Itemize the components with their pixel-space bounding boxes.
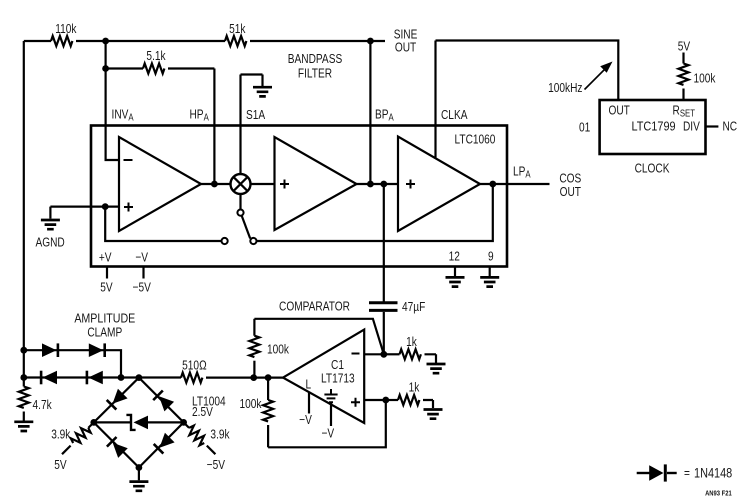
wire A3 output to COS OUT: [480, 183, 550, 185]
diode D7 bridge bottom-left: [107, 437, 128, 458]
legend diode 1N4148: [637, 472, 650, 474]
resistor 100k feedback: [253, 319, 255, 336]
ground AGND: [49, 207, 51, 219]
diode D6 bridge top-right: [153, 391, 174, 412]
svg-text:OUT: OUT: [609, 103, 630, 117]
node junction bridge bottom: [136, 464, 143, 471]
switch S1 pole: [239, 194, 241, 209]
svg-text:5V: 5V: [54, 458, 67, 472]
svg-text:−5V: −5V: [207, 458, 226, 472]
svg-text:3.9k: 3.9k: [51, 427, 70, 441]
node junction BPA top: [367, 38, 374, 45]
switch S1 left contact: [222, 238, 228, 244]
svg-text:47µF: 47µF: [402, 300, 425, 314]
svg-text:OUT: OUT: [395, 40, 416, 54]
svg-text:C1: C1: [331, 358, 344, 372]
svg-text:5.1k: 5.1k: [146, 49, 165, 63]
wire summing node to A2: [251, 183, 275, 185]
svg-text:=: =: [684, 466, 690, 480]
node junction 110k/51k: [102, 38, 109, 45]
wire 5.1k to HPA pin: [168, 69, 214, 185]
ground 4.7k: [14, 422, 33, 431]
svg-text:9: 9: [488, 249, 494, 263]
ground comparator gnd pin: [330, 389, 332, 394]
svg-text:100kHz: 100kHz: [548, 81, 582, 95]
svg-text:CLKA: CLKA: [441, 108, 468, 122]
resistor 1k lower: [386, 399, 398, 401]
node junction clamp right: [118, 374, 125, 381]
capacitor 47uF: [383, 184, 385, 302]
wire left rail: [23, 41, 25, 378]
svg-text:01: 01: [579, 120, 590, 134]
svg-text:CLAMP: CLAMP: [87, 325, 122, 339]
comparator C1 LT1713: [283, 330, 364, 424]
svg-text:COS: COS: [559, 171, 581, 185]
resistor 110k: [51, 36, 72, 46]
svg-text:1N4148: 1N4148: [694, 465, 732, 481]
svg-text:AGND: AGND: [35, 235, 64, 249]
ground pin 12: [446, 277, 465, 286]
wire feedback rail to LPA output: [257, 184, 493, 241]
svg-text:BANDPASS: BANDPASS: [288, 52, 343, 66]
wire S1A to ground: [241, 75, 263, 175]
op-amp A3: [398, 137, 480, 232]
op-amp A2: [275, 137, 357, 230]
resistor 4.7k: [23, 378, 25, 387]
svg-text:510Ω: 510Ω: [182, 358, 207, 372]
wire down to 5.1k: [104, 41, 106, 69]
wire clock feed: [436, 41, 619, 101]
svg-text:3.9k: 3.9k: [210, 427, 229, 441]
svg-text:5V: 5V: [100, 280, 113, 294]
summing node circle: [231, 174, 251, 194]
annotation 100kHz arrow: [585, 68, 607, 90]
node junction 100k divider tap: [265, 374, 272, 381]
svg-text:L: L: [305, 377, 311, 391]
svg-text:LTC1060: LTC1060: [455, 132, 496, 146]
diode D3: [41, 371, 57, 385]
svg-text:OUT: OUT: [560, 185, 581, 199]
node junction noninverting input: [382, 397, 389, 404]
resistor 5.1k: [106, 67, 143, 69]
svg-text:5V: 5V: [678, 39, 691, 53]
ground 1k upper: [427, 364, 446, 373]
resistor 3.9k left: [88, 422, 94, 428]
svg-text:100k: 100k: [694, 71, 716, 85]
resistor 3.9k right: [184, 422, 190, 428]
svg-text:−5V: −5V: [133, 280, 152, 294]
wire op-amp A1 output: [201, 183, 231, 185]
node junction clamp top left: [20, 347, 27, 354]
ground S1A: [253, 87, 272, 96]
wire CLKA: [434, 41, 436, 158]
svg-text:AN93 F21: AN93 F21: [705, 490, 732, 498]
svg-text:CLOCK: CLOCK: [635, 161, 670, 175]
wire INVA input: [106, 69, 119, 161]
LTC1060 box U1: [91, 126, 507, 267]
wire bottom rail to noninverting input: [268, 400, 386, 447]
resistor 510 ohm: [181, 373, 202, 383]
resistor 1k upper: [384, 353, 400, 355]
zener LT1004 2.5V: [94, 421, 184, 423]
svg-text:NC: NC: [723, 119, 738, 133]
switch S1 right contact: [250, 238, 256, 244]
node junction 5.1k tap: [102, 65, 109, 72]
svg-text:−V: −V: [299, 413, 312, 427]
switch S1 lever: [242, 216, 250, 239]
svg-text:1k: 1k: [406, 335, 417, 349]
wire comparator noninverting input: [364, 399, 386, 401]
wire to switch pole rail: [105, 207, 221, 241]
diode D4: [87, 371, 103, 385]
diode D8 bridge bottom-right: [154, 433, 175, 454]
svg-text:S1A: S1A: [246, 108, 265, 122]
svg-text:LT1713: LT1713: [321, 371, 355, 385]
svg-text:FILTER: FILTER: [298, 66, 332, 80]
clock box LTC1799: [600, 100, 706, 154]
svg-text:LTC1799: LTC1799: [632, 119, 676, 134]
node junction BPA cap tap: [380, 181, 387, 188]
node junction bridge right: [180, 419, 187, 426]
wire top rail to SINE OUT: [24, 40, 385, 42]
diode D2: [89, 343, 105, 357]
svg-text:100k: 100k: [267, 342, 289, 356]
svg-text:110k: 110k: [55, 22, 76, 36]
diode D5 bridge top-left: [107, 389, 128, 410]
svg-text:100k: 100k: [240, 397, 262, 411]
wire AGND to noninverting input: [50, 206, 119, 208]
svg-text:AMPLITUDE: AMPLITUDE: [74, 310, 135, 325]
node junction LPA: [489, 181, 496, 188]
node junction inverting input: [380, 351, 387, 358]
node junction bridge top: [136, 374, 143, 381]
node junction clamp bottom left: [20, 374, 27, 381]
diode bridge edges: [94, 378, 184, 468]
resistor 100k RSET: [682, 53, 684, 64]
ground bridge bottom: [138, 468, 140, 481]
wire BPA vertical: [369, 41, 371, 184]
node junction 100k feedback tap: [250, 374, 257, 381]
svg-text:−V: −V: [321, 426, 334, 440]
ground pin 9: [480, 277, 499, 286]
op-amp A1: [119, 137, 201, 231]
svg-text:COMPARATOR: COMPARATOR: [279, 299, 350, 313]
svg-text:51k: 51k: [229, 22, 245, 36]
diode D1: [42, 343, 58, 357]
resistor 51k: [225, 36, 246, 46]
svg-text:+V: +V: [99, 250, 112, 264]
ground 1k lower: [424, 410, 443, 419]
svg-text:1k: 1k: [409, 380, 420, 394]
svg-text:−V: −V: [135, 250, 148, 264]
node junction HPA output: [211, 181, 218, 188]
wire clamp top row: [24, 350, 121, 377]
resistor 100k input divider: [267, 378, 269, 400]
svg-text:DIV: DIV: [683, 119, 700, 133]
wire DIV to NC: [706, 125, 719, 127]
wire main rail: [24, 376, 283, 378]
node junction bridge left: [90, 419, 97, 426]
node junction noninverting input: [102, 203, 109, 210]
svg-text:4.7k: 4.7k: [33, 398, 52, 412]
wire comparator inverting input: [364, 353, 384, 355]
svg-text:12: 12: [449, 249, 460, 263]
wire A2 output: [357, 183, 399, 185]
wire comparator feedback top rail: [254, 319, 383, 355]
node junction BPA: [367, 181, 374, 188]
svg-text:2.5V: 2.5V: [192, 405, 213, 419]
